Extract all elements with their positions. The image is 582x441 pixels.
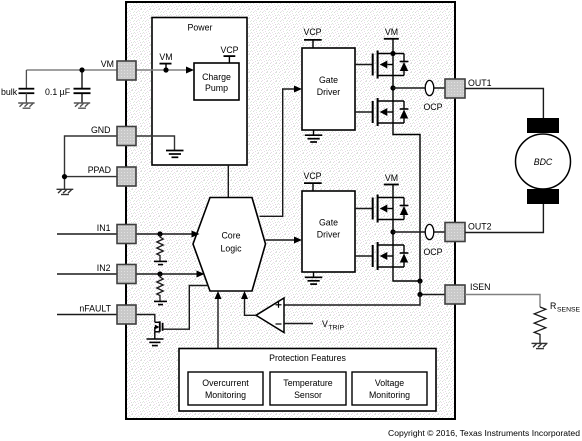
pin nFAULT — [117, 305, 136, 324]
temperature sensor block — [270, 372, 346, 405]
charge pump U1 — [194, 63, 239, 100]
supply tap VM (over Q1) — [384, 27, 399, 39]
svg-text:VCP: VCP — [303, 27, 321, 37]
transistor Q1 (high side 1) — [373, 51, 404, 79]
wire OUT2 to motor — [465, 204, 543, 233]
svg-text:Pump: Pump — [205, 83, 228, 93]
svg-text:Gate: Gate — [319, 75, 338, 85]
wire VTRIP input — [284, 323, 313, 325]
wire GD2 to Q4 gate — [355, 255, 373, 257]
svg-text:Power: Power — [188, 23, 213, 33]
wire Power to Core Logic — [227, 165, 229, 198]
svg-text:BDC: BDC — [534, 157, 553, 167]
wire PPAD external — [65, 177, 119, 189]
svg-text:R: R — [550, 301, 556, 311]
svg-text:VM: VM — [385, 27, 398, 37]
svg-text:VM: VM — [159, 52, 172, 62]
svg-text:Driver: Driver — [317, 87, 341, 97]
wire ISEN external — [465, 295, 540, 308]
node Q1 drain — [390, 51, 395, 56]
svg-text:OCP: OCP — [423, 102, 442, 112]
svg-text:Monitoring: Monitoring — [369, 390, 410, 400]
wire VM rail half-bridge 2 — [393, 185, 420, 282]
svg-text:OCP: OCP — [423, 247, 442, 257]
supply tap VM (power block) — [159, 52, 172, 73]
svg-text:nFAULT: nFAULT — [79, 304, 111, 314]
transistor Q4 (low side 2) — [373, 242, 404, 270]
capacitor C1 0.1uF — [74, 70, 91, 103]
wire GD2 to Q3 gate — [355, 208, 373, 210]
ground under gate driver 2 — [305, 272, 323, 284]
transistor Q3 (high side 2) — [373, 195, 404, 223]
svg-text:TRIP: TRIP — [329, 325, 345, 332]
ground (earth) external GND/PPAD — [57, 189, 74, 194]
pin IN1 — [117, 225, 136, 244]
node OUT2 — [390, 229, 395, 234]
wire protection to core — [215, 291, 222, 349]
wire nFAULT external — [57, 314, 117, 316]
wire IN1 internal to core — [136, 231, 200, 238]
transistor Q5 (nFAULT open drain) — [155, 321, 163, 339]
svg-text:Protection Features: Protection Features — [269, 353, 346, 363]
wire ISEN to comparator — [284, 295, 420, 306]
wire OUT1 to motor — [465, 89, 543, 119]
wire IN2 internal to core — [136, 271, 205, 278]
diode D2 (body) — [400, 101, 409, 123]
svg-text:IN2: IN2 — [97, 263, 111, 273]
transistor Q2 (low side 1) — [373, 98, 404, 126]
protection features block — [179, 349, 436, 412]
node ISEN junction — [417, 292, 422, 297]
core logic — [193, 198, 266, 292]
capacitor bulk — [19, 70, 35, 103]
wire comparator output to core — [241, 291, 256, 315]
chip boundary — [126, 2, 455, 419]
comparator U2 — [256, 298, 284, 333]
resistor RSENSE — [534, 307, 546, 343]
diode D4 (body) — [400, 245, 409, 267]
svg-text:VM: VM — [101, 59, 114, 69]
node GND/PPAD junction — [62, 174, 67, 179]
svg-text:Monitoring: Monitoring — [205, 390, 246, 400]
wire GD1 to Q1 gate — [355, 64, 373, 66]
wire core to gate driver 1 — [260, 86, 303, 217]
svg-text:V: V — [322, 319, 328, 329]
pin VM — [117, 61, 136, 80]
wire IN1 external — [57, 233, 117, 235]
svg-text:Voltage: Voltage — [375, 378, 404, 388]
svg-text:VM: VM — [385, 173, 398, 183]
svg-text:Copyright © 2016, Texas Instru: Copyright © 2016, Texas Instruments Inco… — [388, 428, 580, 438]
label VTRIP — [322, 319, 344, 332]
pin GND — [117, 127, 136, 146]
ground under R1 — [154, 261, 167, 264]
wire VM internal to charge pump — [136, 67, 194, 74]
svg-text:VCP: VCP — [220, 45, 238, 55]
svg-text:IN1: IN1 — [97, 223, 111, 233]
gate driver 2 — [302, 191, 355, 272]
wire VM rail half-bridge 1 — [393, 39, 420, 281]
svg-text:SENSE: SENSE — [557, 307, 581, 314]
svg-text:Temperature: Temperature — [283, 378, 332, 388]
wire GND external — [65, 136, 119, 177]
voltage monitoring block — [352, 372, 427, 405]
pin OUT2 — [445, 223, 465, 242]
svg-text:GND: GND — [91, 125, 111, 135]
pin ISEN — [445, 285, 465, 304]
wire core to gate driver 2 — [266, 237, 303, 244]
wire GD1 to Q2 gate — [355, 111, 373, 113]
diode D3 (body) — [400, 198, 409, 220]
node OUT1 — [390, 85, 395, 90]
wire OUT2 to pin — [393, 231, 445, 233]
pin PPAD — [117, 167, 136, 186]
current sensor OCP1 — [423, 80, 442, 112]
ground (earth) under C1 — [74, 103, 90, 108]
label RSENSE — [550, 301, 581, 314]
ground under gate driver 1 — [305, 130, 323, 142]
wire VM net external — [26, 69, 117, 71]
svg-text:bulk: bulk — [1, 87, 18, 97]
wire OUT1 to pin — [393, 87, 445, 89]
wire GND internal — [136, 136, 175, 151]
ground (earth) under RSENSE — [532, 343, 548, 348]
wire nFAULT internal — [136, 315, 155, 323]
wire Q5 gate from core logic — [163, 286, 209, 330]
motor BDC — [516, 118, 571, 204]
supply tap VCP (gate driver 2) — [303, 171, 321, 191]
current sensor OCP2 — [423, 224, 442, 257]
ground (earth) under bulk cap — [18, 103, 34, 108]
supply tap VCP (gate driver 1) — [303, 27, 321, 48]
svg-text:Overcurrent: Overcurrent — [202, 378, 249, 388]
svg-text:VCP: VCP — [303, 171, 321, 181]
svg-text:Core: Core — [221, 231, 240, 241]
pin OUT1 — [445, 79, 465, 98]
node VM-cap junction — [79, 67, 84, 72]
svg-text:Logic: Logic — [220, 244, 242, 254]
resistor R2 pulldown IN2 — [157, 271, 163, 301]
svg-text:PPAD: PPAD — [88, 165, 111, 175]
supply tap VM (over Q3) — [384, 173, 399, 185]
diode D1 (body) — [400, 54, 409, 76]
svg-text:Sensor: Sensor — [294, 390, 322, 400]
ground under R2 — [154, 301, 167, 304]
pin IN2 — [117, 265, 136, 284]
wire sources to ISEN — [420, 281, 445, 295]
svg-text:ISEN: ISEN — [470, 282, 491, 292]
ground (3-bar) in power block — [166, 151, 184, 158]
Power block — [152, 18, 247, 166]
resistor R1 pulldown IN1 — [157, 231, 163, 261]
overcurrent monitoring block — [188, 372, 263, 405]
svg-text:OUT1: OUT1 — [468, 78, 492, 88]
svg-text:0.1 µF: 0.1 µF — [45, 87, 71, 97]
ground under Q5 — [147, 339, 164, 346]
svg-text:OUT2: OUT2 — [468, 222, 492, 232]
svg-text:Gate: Gate — [319, 218, 338, 228]
gate driver 1 — [302, 48, 355, 130]
supply tap VCP (charge pump) — [220, 45, 238, 63]
svg-text:Driver: Driver — [317, 230, 341, 240]
node source junction — [417, 278, 422, 283]
svg-text:Charge: Charge — [202, 72, 231, 82]
wire IN2 external — [57, 273, 117, 275]
